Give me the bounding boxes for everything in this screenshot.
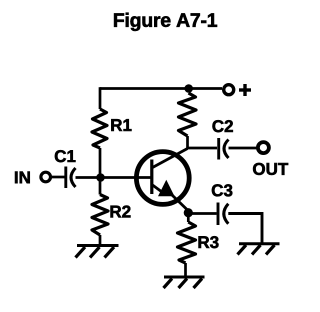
capacitor C3 [218, 203, 228, 226]
terminal IN [41, 172, 51, 182]
ground left [76, 246, 119, 258]
label C1 [55, 150, 76, 162]
terminal O+ [224, 84, 251, 96]
wire base node to R2 [99, 179, 102, 195]
wire emitter to C3 [188, 212, 216, 215]
resistor collector [179, 93, 197, 136]
terminal OUT [258, 142, 269, 153]
label R3 [199, 236, 219, 248]
wire R1 top (left rail corner down) [99, 87, 102, 109]
wire C2 to OUT [229, 147, 257, 150]
resistor R3 [178, 222, 196, 263]
wire collector resistor to node [186, 136, 189, 149]
label R1 [111, 119, 131, 131]
resistor R1 [92, 109, 107, 148]
node top rail junction [184, 84, 193, 93]
wire R3 to bottom ground [184, 263, 187, 277]
capacitor C2 [219, 138, 229, 160]
wire top rail [100, 87, 222, 90]
wire collector to C2 [188, 147, 218, 150]
wire R2 to ground [99, 235, 102, 246]
wire IN to C1 [51, 176, 65, 179]
wire R1 bottom to base node [99, 148, 102, 178]
wire C1 to base node [76, 176, 97, 179]
node base junction [96, 173, 105, 182]
title Figure A7-1 [114, 13, 217, 31]
wire C3 to right ground [228, 214, 262, 244]
wire emitter node to R3 [187, 214, 190, 223]
label R2 [111, 206, 131, 218]
ground right [238, 244, 280, 255]
label IN [15, 172, 30, 184]
node emitter junction [184, 208, 193, 217]
label C2 [213, 120, 233, 132]
resistor R2 [92, 195, 108, 236]
transistor Q1 [136, 149, 189, 212]
wire base [101, 176, 152, 179]
label C3 [212, 184, 232, 196]
label OUT [253, 163, 288, 175]
ground bottom [164, 277, 205, 288]
capacitor C1 [66, 167, 76, 189]
